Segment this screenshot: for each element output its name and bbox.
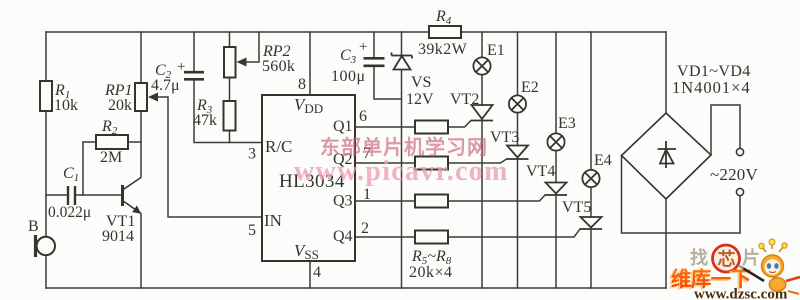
svg-text:VS: VS <box>411 74 431 91</box>
wire IC pin 4 VSS to ground rail <box>309 261 311 288</box>
wire lamp E2 column <box>517 32 519 146</box>
svg-text:1: 1 <box>363 186 371 203</box>
wire C3 top lead from supply rail <box>373 32 375 57</box>
wire left rail with R1 and microphone branch <box>45 32 47 236</box>
wire zener VS cathode to supply rail <box>401 32 403 55</box>
svg-text:VT2: VT2 <box>450 91 479 108</box>
wire bridge DC+ top vertex to supply rail <box>665 32 667 113</box>
svg-text:100μ: 100μ <box>331 68 366 85</box>
wire R6 to VT3 gate <box>448 159 507 163</box>
svg-text:E2: E2 <box>521 79 539 96</box>
wire bridge AC left vertex to lower 220V terminal <box>622 156 741 234</box>
svg-text:2: 2 <box>361 220 369 237</box>
wire lamp E1 column <box>481 32 483 105</box>
svg-text:560k: 560k <box>262 58 295 75</box>
svg-text:+: + <box>359 39 367 55</box>
svg-text:8: 8 <box>298 76 306 93</box>
thyristor VT5 <box>580 217 602 229</box>
svg-text:2M: 2M <box>100 149 122 166</box>
thyristor VT3 <box>507 146 529 160</box>
resistor R2 <box>96 135 128 149</box>
wire RP1 bottom to VT1 collector <box>140 111 142 177</box>
wire RP2 top lead from supply rail <box>229 32 231 47</box>
wire VT3 cathode to ground rail <box>517 160 519 289</box>
wire C1 right lead to VT1 base <box>77 194 122 196</box>
wire mic bottom to ground rail <box>45 256 47 288</box>
potentiometer RP2 body <box>224 47 236 78</box>
wire Q1 pin 6 to R5 <box>355 126 415 128</box>
wire IC pin 8 VDD to supply rail <box>309 32 311 95</box>
lamp E4 <box>582 170 599 187</box>
microphone B <box>36 235 56 257</box>
svg-text:4.7μ: 4.7μ <box>151 77 180 94</box>
lamp E2 <box>509 95 526 112</box>
wire RP2 wiper tied up to supply rail <box>242 32 259 62</box>
svg-text:www.picavr.com: www.picavr.com <box>294 156 509 187</box>
wire R8 to VT5 gate <box>448 229 580 237</box>
AC terminal upper circle <box>736 148 743 155</box>
svg-text:1N4001×4: 1N4001×4 <box>672 78 751 97</box>
svg-text:找: 找 <box>690 247 708 268</box>
wire zener VS anode down to ground rail <box>401 70 403 288</box>
capacitor C1 <box>68 186 75 205</box>
svg-text:~220V: ~220V <box>710 165 758 184</box>
wire RP1 wiper to IN pin 5 of IC <box>151 97 262 217</box>
svg-text:VT5: VT5 <box>562 199 591 216</box>
wire RP2 bottom to R3 top <box>229 78 231 102</box>
svg-text:E4: E4 <box>594 152 612 169</box>
svg-text:47k: 47k <box>193 112 217 129</box>
zener diode VS <box>392 53 413 70</box>
wire lamp E3 column <box>555 32 557 183</box>
wire VT2 cathode to ground rail <box>481 121 483 288</box>
resistor R1 <box>40 81 52 111</box>
svg-text:片: 片 <box>742 247 760 268</box>
wire R5 to VT2 gate <box>448 121 471 128</box>
logo magnifier red ring with xin character <box>713 245 740 272</box>
thyristor VT2 <box>471 105 493 121</box>
wire C2 bottom lead down to R/C node <box>194 81 262 143</box>
AC terminal lower circle <box>736 188 743 195</box>
wire Q2 pin 7 to R6 <box>355 162 415 164</box>
svg-text:9014: 9014 <box>102 228 134 245</box>
wire bottom ground rail <box>46 287 666 289</box>
wire RP1 top from supply rail <box>140 32 142 83</box>
resistor R6 <box>415 157 448 170</box>
resistor R8 <box>415 231 448 244</box>
potentiometer RP2 wiper arrow <box>237 58 247 67</box>
capacitor C2 (polarized) <box>184 72 204 79</box>
wire VT5 cathode to ground rail <box>590 230 592 289</box>
svg-text:IN: IN <box>264 211 282 230</box>
svg-text:39k2W: 39k2W <box>418 41 468 58</box>
wire bridge AC right vertex to upper 220V terminal <box>711 105 740 155</box>
wire lamp E4 column <box>590 32 592 217</box>
svg-text:E3: E3 <box>558 115 576 132</box>
resistor R7 <box>415 195 448 208</box>
resistor R4 <box>429 26 461 38</box>
svg-text:Q1: Q1 <box>333 118 353 135</box>
lamp E1 <box>473 57 490 74</box>
wire VT4 cathode to ground rail <box>555 196 557 289</box>
svg-text:+: + <box>177 59 185 75</box>
svg-text:R/C: R/C <box>265 137 292 156</box>
wire R3 bottom to R/C line junction <box>229 131 231 143</box>
wire top supply rail <box>46 31 666 33</box>
svg-text:4: 4 <box>313 264 321 281</box>
thyristor VT4 <box>545 183 567 196</box>
capacitor C3 (polarized) <box>364 58 385 66</box>
potentiometer RP1 body <box>135 83 147 111</box>
svg-text:5: 5 <box>248 222 256 239</box>
resistor R3 <box>224 101 236 131</box>
svg-text:20k: 20k <box>108 97 132 114</box>
wire VT1 emitter down to ground rail <box>140 214 142 288</box>
wire Q3 pin 1 to R7 <box>355 200 415 202</box>
potentiometer RP1 wiper arrow <box>148 93 158 102</box>
wire R7 to VT4 gate <box>448 195 545 201</box>
svg-text:6: 6 <box>359 108 367 125</box>
wire R2 left branch down to base node <box>83 142 96 195</box>
mascot <box>739 239 800 294</box>
transistor VT1 <box>123 178 142 214</box>
wire R2 right lead to collector rail <box>128 141 141 143</box>
svg-text:12V: 12V <box>406 91 434 108</box>
wire C3 bottom lead jog to ground line <box>374 68 402 100</box>
svg-text:E1: E1 <box>487 42 505 59</box>
bridge internal diode symbol <box>658 141 677 168</box>
svg-text:Q4: Q4 <box>333 228 353 245</box>
svg-text:3: 3 <box>248 146 256 163</box>
lamp E3 <box>547 133 564 150</box>
svg-text:0.022μ: 0.022μ <box>48 204 91 221</box>
svg-text:芯: 芯 <box>718 249 736 270</box>
svg-text:VT3: VT3 <box>490 129 519 146</box>
IC U1 HL3034 box <box>262 95 355 261</box>
bridge rectifier VD1-VD4 diamond <box>622 113 712 199</box>
wire C2 top lead from supply rail <box>193 32 195 71</box>
resistor R5 <box>415 121 448 134</box>
wire C1 left lead <box>46 194 67 196</box>
wire Q4 pin 2 to R8 <box>355 236 415 238</box>
svg-text:20k×4: 20k×4 <box>409 264 453 281</box>
svg-text:VT4: VT4 <box>526 163 555 180</box>
svg-text:Q3: Q3 <box>333 193 353 210</box>
svg-text:B: B <box>28 218 39 235</box>
wire bridge DC- bottom vertex to ground rail <box>665 199 667 288</box>
svg-text:10k: 10k <box>54 97 78 114</box>
